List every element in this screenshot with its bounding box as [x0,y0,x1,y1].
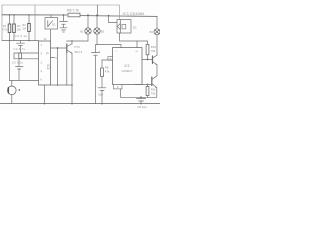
relay RL1 [117,20,137,34]
svg-text:PT3: PT3 [75,45,81,49]
svg-text:10u: 10u [98,92,103,96]
svg-text:IC2: IC2 [125,64,130,68]
IC U2 [108,48,142,85]
lamp B2 [94,14,105,44]
resistor R10 [146,41,156,60]
transistor T3 [67,44,83,54]
wire left supply stub [1,5,3,41]
lamp B1 [80,14,91,41]
svg-text:D2: D2 [133,26,137,30]
svg-text:IC3 CD4060: IC3 CD4060 [123,12,145,16]
resistor R8 [101,60,110,88]
wire IC2 pin16 stub [136,41,138,48]
op-amp IC1 [39,41,51,85]
wire T2 base bus [135,84,152,86]
svg-text:SK1.3: SK1.3 [75,50,83,54]
wire IC2 left pin [102,59,113,61]
wire top rail left [2,14,67,16]
svg-text:70k: 70k [151,49,156,53]
wire T2 emitter drop [156,88,158,98]
svg-text:C3 0.1u: C3 0.1u [12,61,24,65]
wire ground bus right [121,96,157,98]
wire junction drop [57,48,59,85]
capacitor C4 [15,34,28,53]
wire IC1 pin14 [44,29,51,41]
resistor R3 [22,15,30,32]
wire emitter drop [71,53,73,103]
wire IC2 right pin [142,59,153,61]
ground [60,28,67,32]
wire IC1 right stub [51,57,55,59]
svg-text:C6 10u: C6 10u [137,105,146,109]
svg-text:4.7k: 4.7k [2,28,8,32]
resistor R6 [67,9,80,17]
wire lamp2 link [96,44,122,46]
svg-text:IC1: IC1 [46,65,50,70]
wire top rail right [80,15,157,18]
resistor R11 [146,84,156,98]
capacitor C5 [95,85,106,104]
resistor R2 [13,15,22,33]
wire IC1 ground pin [44,85,46,104]
wire R1 long drop [9,33,11,81]
svg-text:R2: R2 [17,24,21,28]
resistor R1 [2,15,11,33]
wire base drop [66,53,68,86]
transistor T1 [153,55,158,65]
svg-text:C2 4.7u: C2 4.7u [14,47,26,51]
wire relay to bus [120,33,148,41]
svg-text:R1: R1 [3,24,7,28]
battery BT1 [60,14,68,28]
svg-text:CD4017: CD4017 [121,69,132,73]
wire sensor bus [2,40,39,42]
wire IC2 pin stub [120,45,122,48]
svg-text:1M: 1M [22,27,26,31]
node base junction [57,47,59,49]
svg-text:R3: R3 [22,23,26,27]
svg-text:R6 7.7k: R6 7.7k [67,9,79,13]
wire collector bus [67,40,89,42]
wire bottom link [51,84,73,86]
wire R3 drop [28,32,30,41]
wire R2 drop [13,33,15,41]
node emitter junction [71,84,73,86]
svg-text:C4 0.1u: C4 0.1u [15,34,28,38]
wire mic bus [10,80,39,82]
wire bottom rail [0,103,160,105]
svg-text:70k: 70k [151,92,156,96]
svg-text:47k: 47k [105,70,110,74]
wire top link [34,5,36,41]
svg-text:B2: B2 [101,29,105,33]
svg-text:B1: B1 [80,29,84,33]
wire T1 emitter drop [156,65,158,76]
capacitor C3 [12,59,24,81]
lamp B3 [150,16,160,55]
wire rail to relay over-link [2,5,119,20]
capacitor C1 [92,45,101,104]
wire collector stub [71,41,73,44]
svg-text:B3: B3 [150,30,154,34]
capacitor C6 [137,96,147,109]
switch S1 [45,15,58,29]
svg-text:10k: 10k [17,28,22,32]
wire IC1 output to base [51,47,67,49]
wire IC2 bottom-left pin [114,85,123,89]
node rail junctions [9,14,142,104]
wire rail stub to relay [108,15,117,23]
capacitor C2 loop [14,47,39,59]
transistor T2 [152,76,157,88]
svg-text:S1: S1 [52,23,56,27]
microphone MIC [8,81,21,104]
svg-text:+: + [99,49,101,53]
svg-text:+: + [95,85,97,89]
